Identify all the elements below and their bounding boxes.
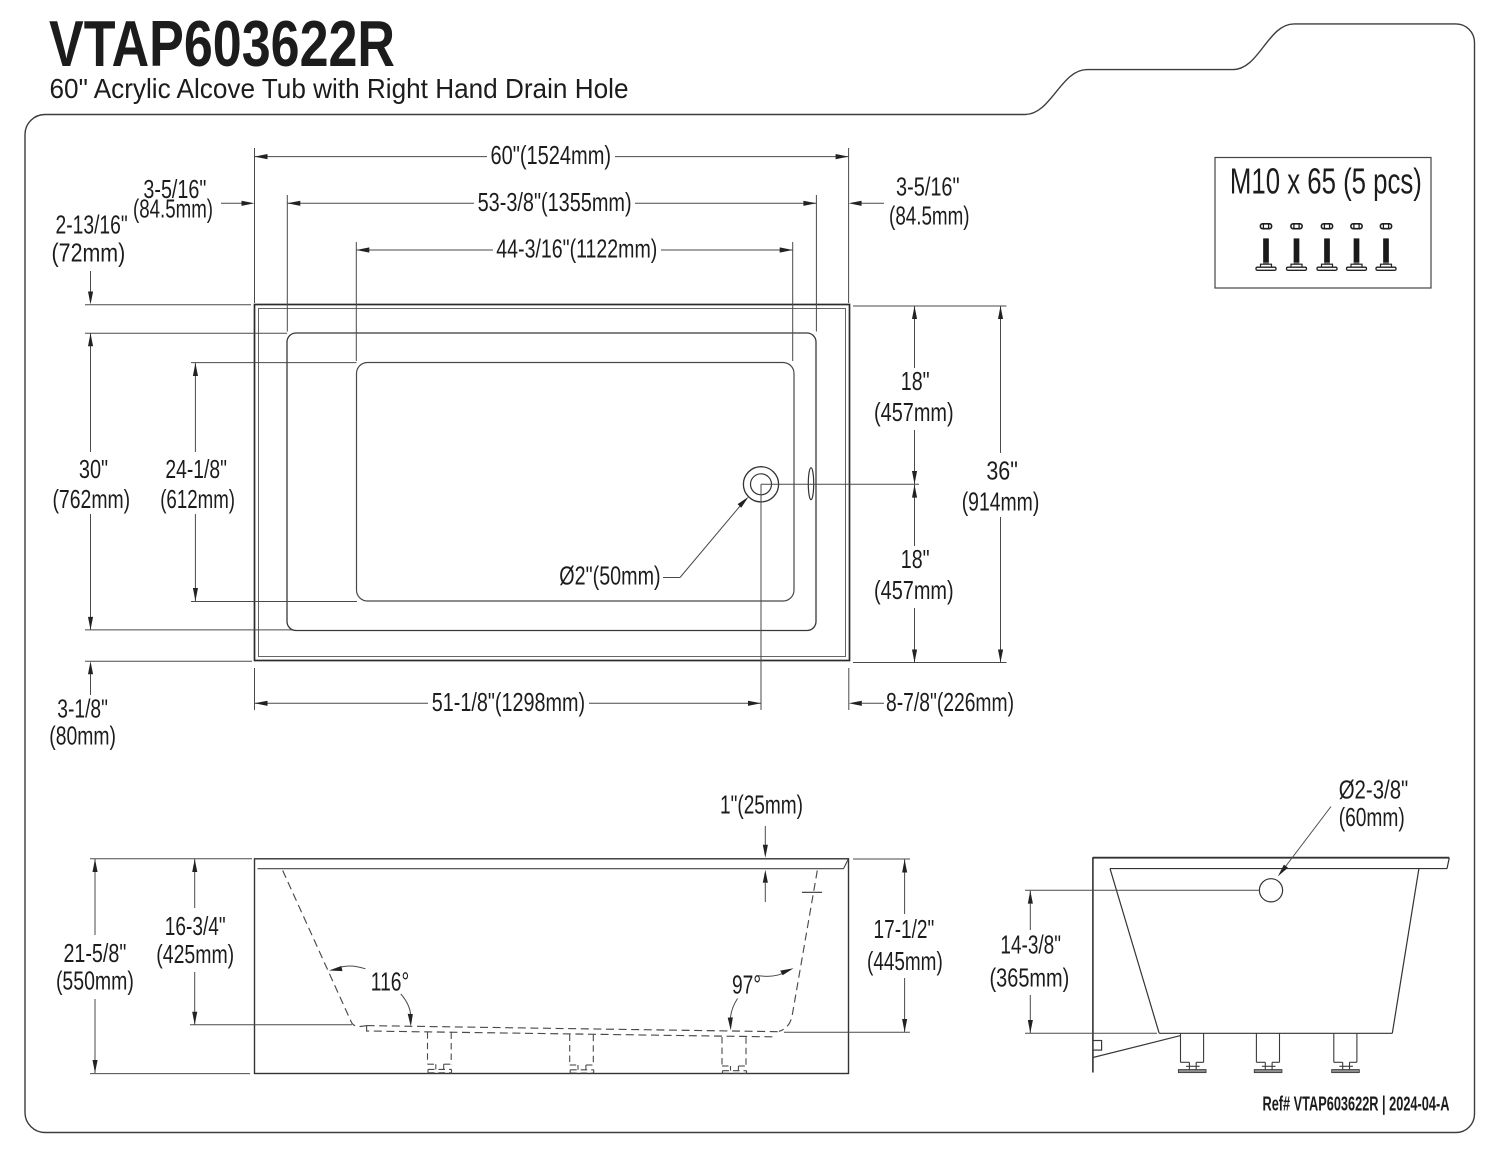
svg-text:M10 x 65 (5 pcs): M10 x 65 (5 pcs) xyxy=(1230,161,1422,202)
svg-text:21-5/8": 21-5/8" xyxy=(63,938,126,968)
dimension 24-1/8" xyxy=(160,363,357,602)
svg-text:60" Acrylic Alcove Tub with Ri: 60" Acrylic Alcove Tub with Right Hand D… xyxy=(50,73,629,104)
side view: drain leader Ø2-3/8"(60mm) xyxy=(1278,775,1408,877)
side view: foot 2 xyxy=(1254,1033,1282,1072)
front view: foot 3 (dashed) xyxy=(722,1037,747,1073)
svg-text:(84.5mm): (84.5mm) xyxy=(889,201,970,231)
svg-text:17-1/2": 17-1/2" xyxy=(874,914,935,944)
dimension 1" rim xyxy=(720,789,803,902)
svg-text:(550mm): (550mm) xyxy=(56,966,134,996)
svg-text:2-13/16": 2-13/16" xyxy=(56,210,128,240)
svg-text:(60mm): (60mm) xyxy=(1339,802,1405,832)
drain centerlines xyxy=(761,484,919,710)
svg-text:44-3/16"(1122mm): 44-3/16"(1122mm) xyxy=(496,234,657,264)
front view: interior profile (dashed) xyxy=(283,871,818,1037)
svg-text:(612mm): (612mm) xyxy=(160,484,235,514)
top view: basin floor xyxy=(357,363,795,602)
side view: foot 3 xyxy=(1332,1033,1360,1072)
dimension 3-5/16" left xyxy=(133,174,255,224)
svg-text:36": 36" xyxy=(986,456,1018,486)
dimension 16-3/4" xyxy=(156,859,352,1025)
dimension 8-7/8" xyxy=(849,668,1014,717)
svg-text:16-3/4": 16-3/4" xyxy=(165,911,226,941)
side view: drain hole xyxy=(1259,879,1282,902)
dimension 3-1/8" xyxy=(49,661,252,750)
side view: support bracket xyxy=(1093,1036,1181,1058)
svg-text:Ø2"(50mm): Ø2"(50mm) xyxy=(559,561,660,591)
bolt 3 xyxy=(1317,224,1337,271)
svg-text:(457mm): (457mm) xyxy=(874,397,954,427)
dimension 17-1/2" xyxy=(784,859,943,1032)
svg-text:(425mm): (425mm) xyxy=(156,939,234,969)
svg-text:(84.5mm): (84.5mm) xyxy=(133,194,213,224)
dimension 44-3/16" xyxy=(356,234,792,362)
svg-text:116°: 116° xyxy=(371,966,409,996)
svg-text:Ref# VTAP603622R | 2024-04-A: Ref# VTAP603622R | 2024-04-A xyxy=(1263,1094,1450,1116)
svg-text:60"(1524mm): 60"(1524mm) xyxy=(491,140,612,170)
bolt 5 xyxy=(1376,224,1396,271)
bolt 2 xyxy=(1287,224,1307,271)
svg-text:1"(25mm): 1"(25mm) xyxy=(720,789,803,819)
svg-text:24-1/8": 24-1/8" xyxy=(165,454,227,484)
svg-text:Ø2-3/8": Ø2-3/8" xyxy=(1339,775,1409,805)
dimension 18" lower xyxy=(853,485,1007,663)
svg-text:(365mm): (365mm) xyxy=(990,963,1070,993)
drain label Ø2"(50mm) with leader xyxy=(559,497,748,591)
svg-text:18": 18" xyxy=(901,366,930,396)
side view: foot 1 xyxy=(1178,1033,1206,1072)
front view: tub outline xyxy=(255,859,849,1074)
front view: overflow mark xyxy=(802,891,822,893)
overflow hole (top view) xyxy=(808,468,813,500)
svg-text:18": 18" xyxy=(901,544,930,574)
svg-text:3-1/8": 3-1/8" xyxy=(57,693,108,723)
dimension 3-5/16" right xyxy=(849,172,970,231)
svg-text:97°: 97° xyxy=(732,970,761,1000)
svg-text:53-3/8"(1355mm): 53-3/8"(1355mm) xyxy=(478,187,632,217)
angle 97 deg xyxy=(728,968,794,1030)
dimension 60" xyxy=(255,140,849,303)
svg-text:51-1/8"(1298mm): 51-1/8"(1298mm) xyxy=(432,687,585,717)
dimension 30" xyxy=(52,333,292,630)
bolt 1 xyxy=(1256,224,1276,271)
svg-text:8-7/8"(226mm): 8-7/8"(226mm) xyxy=(886,687,1014,717)
angle 116 deg xyxy=(329,966,413,1027)
svg-text:(457mm): (457mm) xyxy=(874,575,954,605)
bolt 4 xyxy=(1347,224,1367,271)
side view: tub outline xyxy=(1093,857,1449,1072)
dimension 53-3/8" xyxy=(287,187,816,331)
drain hole (top view) xyxy=(743,467,778,502)
svg-text:30": 30" xyxy=(79,454,108,484)
top view: tub outer edge (double line) xyxy=(255,305,850,661)
svg-text:(80mm): (80mm) xyxy=(49,721,116,751)
svg-text:(914mm): (914mm) xyxy=(962,487,1040,517)
top view: inner rim xyxy=(287,333,816,631)
svg-text:14-3/8": 14-3/8" xyxy=(1000,930,1061,960)
svg-text:(72mm): (72mm) xyxy=(52,238,126,268)
front view: foot 1 (dashed) xyxy=(428,1032,452,1073)
dimension 18" upper xyxy=(853,306,1007,484)
svg-text:(762mm): (762mm) xyxy=(52,484,130,514)
dimension 51-1/8" xyxy=(255,668,762,717)
svg-text:3-5/16": 3-5/16" xyxy=(896,172,960,202)
hardware box M10 x 65 xyxy=(1215,158,1431,289)
dimension 36" xyxy=(962,306,1040,663)
dimension 21-5/8" xyxy=(56,859,252,1074)
dimension 2-13/16" xyxy=(52,210,287,334)
front view: foot 2 (dashed) xyxy=(570,1035,594,1074)
svg-text:(445mm): (445mm) xyxy=(867,946,943,976)
dimension 14-3/8" xyxy=(990,890,1260,1033)
svg-text:VTAP603622R: VTAP603622R xyxy=(49,7,395,80)
